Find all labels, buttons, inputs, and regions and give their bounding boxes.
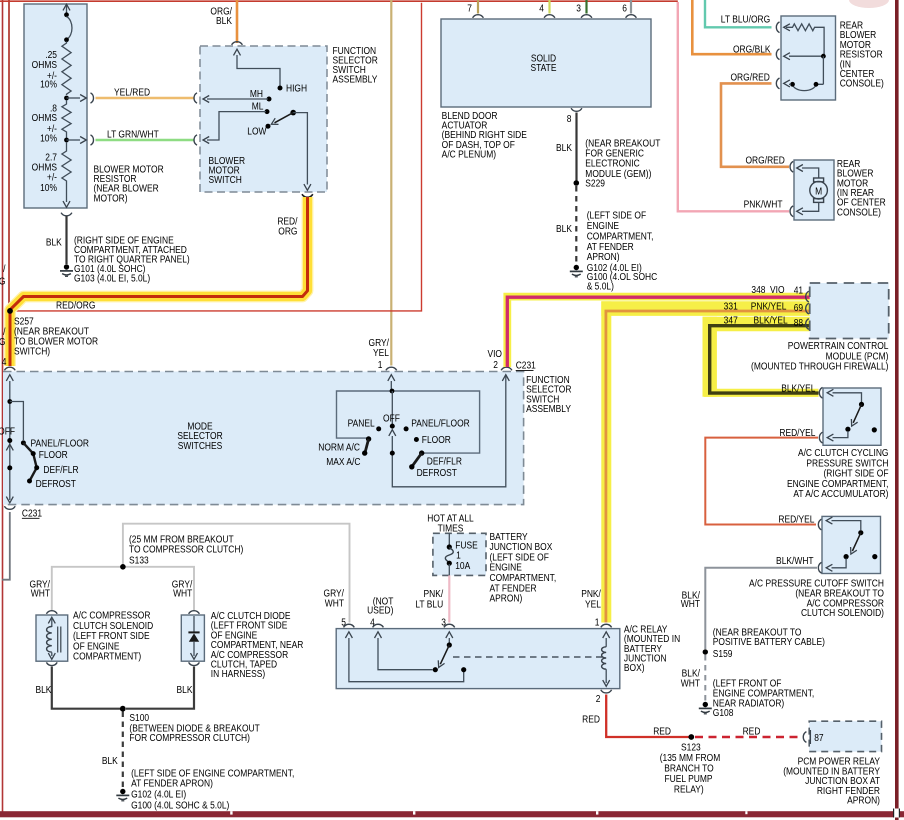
wire: tap to LT GRN/WHT [67,139,81,141]
actuator dot cutoff [872,554,877,559]
svg-text:BLK: BLK [556,142,573,153]
svg-text:LOW: LOW [247,126,266,137]
svg-text:BRANCH TO: BRANCH TO [664,763,713,774]
connector at switch top [232,42,243,45]
connector pin 5 [344,624,355,627]
label PCM [751,340,888,371]
connector paren motor top row [790,161,793,172]
svg-text:COMPARTMENT,: COMPARTMENT, [587,231,654,242]
svg-text:ELECTRONIC: ELECTRONIC [585,158,640,169]
svg-text:RED/: RED/ [277,216,298,227]
wire: branch to rotary pole [10,402,24,441]
wire diode top [193,616,195,632]
label function selector switch assembly (top) [333,45,379,85]
label rear blower motor [837,158,886,217]
svg-text:C231: C231 [516,360,536,371]
svg-text:VIO: VIO [770,284,785,295]
label S133 block [129,534,243,566]
pin 6 stub [630,0,632,14]
svg-text:SWITCH: SWITCH [209,175,242,186]
arrow + wire cycling top [827,389,833,396]
label S229 block [585,138,660,189]
svg-text:WHT: WHT [325,598,345,609]
arrow + wire cutoff top [826,517,832,524]
wire PNK/YEL: pink core [606,311,810,623]
svg-text:AT A/C ACCUMULATOR): AT A/C ACCUMULATOR) [793,489,888,500]
svg-text:MAX A/C: MAX A/C [326,456,361,467]
wire: thin RED from S257 up and across [10,3,422,311]
svg-text:WHT: WHT [681,678,701,689]
node S133 [120,564,126,570]
svg-text:RED: RED [582,714,600,725]
svg-text:WHT: WHT [31,588,51,599]
svg-text:MH: MH [250,88,263,99]
wire: down to OFF [391,391,393,425]
arrow pin 4 + wire [375,632,382,638]
svg-text:ORG: ORG [278,226,297,237]
lever cutoff [852,533,860,551]
node DEFROST [27,479,32,484]
wire S133 net light gray [52,524,350,623]
label HOT AT ALL TIMES [427,513,473,534]
label GRY/YEL [369,337,390,358]
powertrain control module dashed box [810,283,889,339]
svg-text:ML: ML [252,101,264,112]
connector C231 pin 4 [4,367,15,370]
label GRY/WHT relay [324,588,345,609]
svg-text:PRESSURE SWITCH: PRESSURE SWITCH [806,458,888,469]
svg-text:YEL/RED: YEL/RED [114,87,150,98]
arrow + wire ORG/BLK row inside [784,53,790,60]
diode symbol [188,631,199,633]
wire YEL/RED [96,97,194,100]
label NOT USED [367,596,394,616]
lever DEF/FLR to DEFROST [412,453,422,466]
blend door actuator solid state box [441,19,651,107]
svg-text:PNK/YEL: PNK/YEL [751,301,787,312]
label RED/ORG at switch [277,216,298,237]
node DEF/FLR pivot right [419,450,424,455]
svg-text:RED: RED [743,726,761,737]
wire RED/ORG thick: halo [10,197,308,366]
label PCM power relay [783,756,880,806]
wire BLK diode down [126,667,194,709]
a/c clutch diode box [181,615,204,661]
svg-text:(MOUNTED THROUGH FIREWALL): (MOUNTED THROUGH FIREWALL) [751,361,888,372]
wire PNK/YEL thick: yellow jacket vertical [601,301,611,622]
rotary lever polyline left [23,443,36,481]
svg-text:CONSOLE): CONSOLE) [840,78,884,89]
svg-text:PNK/: PNK/ [581,589,601,600]
wire BLK from pin 8 [575,113,577,181]
svg-text:APRON): APRON) [847,795,880,806]
wire ORG/BLK right [692,0,771,54]
svg-text:87: 87 [814,732,823,743]
node LOW [266,124,271,129]
svg-text:S133: S133 [129,555,149,566]
svg-text:PANEL/FLOOR: PANEL/FLOOR [31,438,90,449]
svg-text:TIMES: TIMES [438,523,464,534]
rotary positions left: PANEL/FLOOR [21,440,26,445]
svg-text:OHMS: OHMS [32,113,57,124]
svg-text:ORG/BLK: ORG/BLK [733,44,771,55]
svg-text:SWITCH): SWITCH) [14,346,50,357]
arrow up pin 2 [502,375,509,381]
label left front of engine compartment [713,678,814,709]
connector C231 pin 2 [501,367,512,370]
svg-text:(LEFT SIDE OF: (LEFT SIDE OF [489,552,549,563]
wire: OFF down to bottom rail [392,375,506,487]
svg-text:4: 4 [539,3,544,14]
arrow + stub ORG/RED row [784,80,790,87]
connector paren ORG/BLK row [776,49,779,60]
svg-text:APRON): APRON) [587,251,620,262]
wire: switch common to HIGH [237,55,280,86]
node dot below arc [64,37,69,42]
wire: ML to connector [207,112,266,140]
wire BLK/WHT dashed to ground [704,655,706,702]
svg-text:DEFROST: DEFROST [417,467,458,478]
svg-text:APRON): APRON) [489,593,522,604]
solenoid core bars [58,627,61,653]
node contact left [433,667,438,672]
fuse 1 10A [448,533,450,545]
wire cycling bottom [833,431,848,438]
label PNK/YEL relay [581,589,601,610]
resistor R .25 ohm zigzag [62,42,71,96]
label GRY/WHT right [172,579,193,599]
svg-text:BLK/WHT: BLK/WHT [776,555,814,566]
svg-text:FUEL PUMP: FUEL PUMP [664,773,712,784]
relay actuation dashed line [453,656,603,658]
svg-text:WHT: WHT [681,598,701,609]
svg-text:BATTERY: BATTERY [489,531,527,542]
svg-text:POWERTRAIN CONTROL: POWERTRAIN CONTROL [788,340,889,351]
wire RED/ORG thick: yellow jacket [10,197,308,366]
svg-text:NEAR RADIATOR): NEAR RADIATOR) [713,698,784,709]
wire: RED/ORG off-page vertical at x=9 [8,0,10,309]
pin 8 connector below box [571,108,582,111]
label ground G100 block [131,768,294,811]
wire PNK/LT BLU [448,575,450,622]
svg-text:G103 (4.0L EI, 5.0L): G103 (4.0L EI, 5.0L) [74,273,150,284]
wire: tap to YEL/RED [67,97,81,99]
connector paren motor bottom row [790,206,793,217]
svg-text:YEL: YEL [373,347,389,358]
svg-text:ORG/RED: ORG/RED [745,155,785,166]
svg-text:BLK: BLK [102,755,119,766]
arrow up inside switch [234,49,241,55]
jumper arc [67,17,72,40]
label blend door actuator [442,110,527,159]
a/c pressure cutoff switch box [822,516,881,573]
wire solenoid bottom + arrow [51,652,53,656]
svg-text:FLOOR: FLOOR [39,450,68,461]
svg-text:CLUTCH SOLENOID: CLUTCH SOLENOID [73,620,154,631]
svg-text:ENGINE: ENGINE [489,562,521,573]
motor M symbol [814,178,824,182]
svg-text:(NEAR BREAKOUT: (NEAR BREAKOUT [585,138,660,149]
battery junction box dashed [433,533,486,575]
svg-text:348: 348 [751,284,765,295]
resistor R 2.7 ohm zigzag [62,142,71,202]
wire BLK solenoid down [52,667,120,709]
svg-text:JUNCTION BOX: JUNCTION BOX [489,541,552,552]
label S159 block [713,627,825,659]
wire BLK/YEL thick: yellow jacket top leg [703,317,811,332]
svg-text:WHT: WHT [173,588,193,599]
svg-text:ENGINE: ENGINE [587,220,619,231]
wire: pivot to output [293,113,307,185]
svg-text:(LEFT SIDE OF: (LEFT SIDE OF [587,210,647,221]
connector pin 2 below relay [601,690,612,693]
arrow pin 3 + wire [446,632,453,638]
pin 3 stub [585,0,587,14]
svg-text:BLK: BLK [35,684,52,695]
connector paren below diode [189,662,200,665]
wire BLK/YEL: black core [710,326,819,393]
wire BLK below resistor [65,216,67,264]
svg-text:CONSOLE): CONSOLE) [837,207,881,218]
label solenoid [73,610,154,662]
wire VIO thick: magenta core [507,297,810,367]
wire BLK dashed to ground [575,186,577,265]
node OFF center [390,424,395,429]
svg-text:ENGINE COMPARTMENT,: ENGINE COMPARTMENT, [787,478,888,489]
connector paren cycling bottom [819,432,822,443]
connector paren above solenoid [46,611,57,614]
node cycling top [859,402,864,407]
svg-text:G108: G108 [713,707,734,718]
label diode [211,610,304,679]
wire RED dashed to PCM power relay [695,736,803,738]
connector pin 4 [373,624,384,627]
svg-text:BLK: BLK [216,16,233,27]
node PANEL [376,426,381,431]
svg-text:MOTOR): MOTOR) [93,193,127,204]
label 2.7 ohms [32,152,57,193]
svg-text:4: 4 [2,356,7,367]
wire: C231 down and out left [2,512,10,580]
node FLOOR [31,451,36,456]
blower motor switch dashed box [200,46,327,192]
svg-text:DEF/FLR: DEF/FLR [43,464,78,475]
rear blower motor resistor box [781,16,836,100]
pcm power relay dashed box [809,721,881,751]
svg-text:G: G [0,276,5,287]
node FLOOR right [414,437,419,442]
connector paren at rear resistor [776,22,779,33]
svg-text:BOX): BOX) [624,663,645,674]
svg-text:ASSEMBLY: ASSEMBLY [526,403,571,414]
label battery junction box [489,531,556,604]
svg-text:+/-: +/- [47,172,57,183]
arrow down at resistor bottom [63,201,70,207]
blower motor resistor box [24,4,87,208]
connector paren PCM power relay [803,732,806,743]
resistor R .8 ohm zigzag [62,100,71,140]
lever NORM to MAX [365,439,369,453]
node relay common [447,642,452,647]
wire PNK/YEL thick: yellow jacket horizontal [601,301,810,316]
ground G100 [116,789,129,801]
svg-text:IN HARNESS): IN HARNESS) [211,669,265,680]
svg-text:RED: RED [653,726,671,737]
wire: resistor internal vertical [66,5,68,15]
svg-text:PANEL: PANEL [348,418,375,429]
wire BLK dashed to ground S100 [122,712,124,789]
label fragments at left edge [0,263,6,347]
node mid left [7,465,12,470]
node DEFROST right [409,464,414,469]
connector C231 pin 1 [386,367,397,370]
svg-text:OFF: OFF [0,426,15,437]
page border right maroon [895,0,899,820]
a/c compressor clutch solenoid box [36,615,68,661]
wire RED/YEL [705,438,818,525]
svg-text:6: 6 [622,3,627,14]
node crossing [390,451,395,456]
svg-text:ORG/RED: ORG/RED [731,72,771,83]
svg-text:A/C PLENUM): A/C PLENUM) [442,149,496,160]
connector paren left of switch [194,93,197,103]
label left side of engine compartment [587,210,658,292]
label S257 [14,316,98,357]
svg-text:DEFROST: DEFROST [36,479,77,490]
wire motor bottom [802,202,819,211]
svg-text:RED/YEL: RED/YEL [778,514,814,525]
connector paren right of box [91,93,94,103]
wire diode bottom + arrow [193,642,195,656]
label cycling switch [787,447,889,499]
wire cutoff bottom [832,558,847,567]
switch lever pivot [290,110,296,116]
arrow up at resistor top [63,4,70,10]
svg-text:10A: 10A [455,560,471,571]
tick marks in bottom band [230,811,747,814]
wire BLK/WHT gray [705,568,817,649]
svg-text:STATE: STATE [531,63,557,74]
svg-text:/: / [3,263,6,274]
wire: pin1 to inner box [390,381,392,391]
label GRY/WHT left [30,579,51,599]
svg-text:PNK/WHT: PNK/WHT [744,199,783,210]
svg-text:POSITIVE BATTERY CABLE): POSITIVE BATTERY CABLE) [713,636,825,647]
relay coil [602,647,607,669]
arrow up below OFF [6,444,13,450]
node S100 [120,706,126,712]
svg-text:(RIGHT SIDE OF: (RIGHT SIDE OF [823,468,888,479]
svg-text:FOR COMPRESSOR CLUTCH): FOR COMPRESSOR CLUTCH) [129,733,250,744]
svg-text:ASSEMBLY: ASSEMBLY [333,74,378,85]
svg-text:A/C COMPRESSOR: A/C COMPRESSOR [73,610,151,621]
svg-text:YEL: YEL [585,599,601,610]
label rear blower motor resistor [840,20,884,89]
svg-text:AT FENDER: AT FENDER [489,583,536,594]
ground G108 [699,702,712,714]
svg-text:69: 69 [794,302,803,313]
wire GRY/YEL long vertical [390,0,392,366]
svg-text:S159: S159 [713,648,733,659]
svg-text:331: 331 [724,301,738,312]
node S229 [574,180,580,186]
arrow into box pin 4 [6,375,13,381]
svg-text:HIGH: HIGH [286,83,307,94]
svg-text:OF ENGINE: OF ENGINE [73,641,119,652]
svg-text:COMPARTMENT,: COMPARTMENT, [489,572,556,583]
relay blade [440,645,449,664]
arrow up inside solenoid top [48,617,55,623]
svg-text:LT BLU/ORG: LT BLU/ORG [721,14,770,25]
wire: vertical to tap row [822,56,824,84]
svg-text:LT GRN/WHT: LT GRN/WHT [107,129,159,140]
node cycling bottom [845,427,850,432]
svg-text:S229: S229 [585,178,605,189]
wire RED from pin 2 [606,695,689,738]
node rear resistor mid [821,54,826,59]
svg-text:FOR GENERIC: FOR GENERIC [585,148,644,159]
wire: left page border red line [2,0,4,813]
svg-text:FLOOR: FLOOR [422,435,451,446]
node junction 1 [64,96,69,101]
svg-text:SWITCHES: SWITCHES [178,440,223,451]
svg-text:(135 MM FROM: (135 MM FROM [660,753,721,764]
connector pin 1 [601,624,612,627]
connector paren cycling switch top [819,387,822,398]
wire LT GRN/WHT [96,139,194,142]
node HIGH [278,86,283,91]
svg-text:8: 8 [567,113,572,124]
node DEF/FLR [34,465,39,470]
label BLK/WHT vertical pair 2 [681,668,701,689]
ground G101 [60,264,73,276]
svg-text:2: 2 [596,694,601,705]
svg-text:3: 3 [576,3,581,14]
label mode selector switches [177,421,223,451]
lever cycling [853,404,861,422]
page border bottom maroon band [0,811,904,817]
wire ORG/RED [721,83,789,166]
node S159 [703,649,708,654]
svg-text:CLUTCH SOLENOID): CLUTCH SOLENOID) [801,608,884,619]
svg-text:USED): USED) [367,605,393,616]
pin 87 bar [809,730,811,744]
wire: thin red wire along top edge [0,0,678,2]
arrow pin 1 + coil [603,632,610,638]
svg-text:TO COMPRESSOR CLUTCH): TO COMPRESSOR CLUTCH) [129,544,243,555]
node MH [267,97,272,102]
label blower motor switch [209,155,246,185]
node cutoff bottom [844,554,849,559]
connector paren above diode [189,611,200,614]
decorative smudge top right [849,0,889,8]
svg-text:88: 88 [794,317,803,328]
label .8 ohms [32,103,57,144]
solenoid coil [47,627,52,653]
svg-text:BLK: BLK [46,237,63,248]
wire: MH to connector [207,98,268,100]
svg-text:10%: 10% [40,133,57,144]
node branch [7,399,12,404]
svg-text:2: 2 [493,359,498,370]
svg-text:BLK: BLK [177,684,194,695]
actuator dot cycling [872,427,877,432]
mode selector switches dashed box [3,372,524,505]
node contact right [461,667,466,672]
svg-text:10%: 10% [40,182,57,193]
node PANEL/FLOOR right [404,426,409,431]
label A/C relay [624,624,680,674]
